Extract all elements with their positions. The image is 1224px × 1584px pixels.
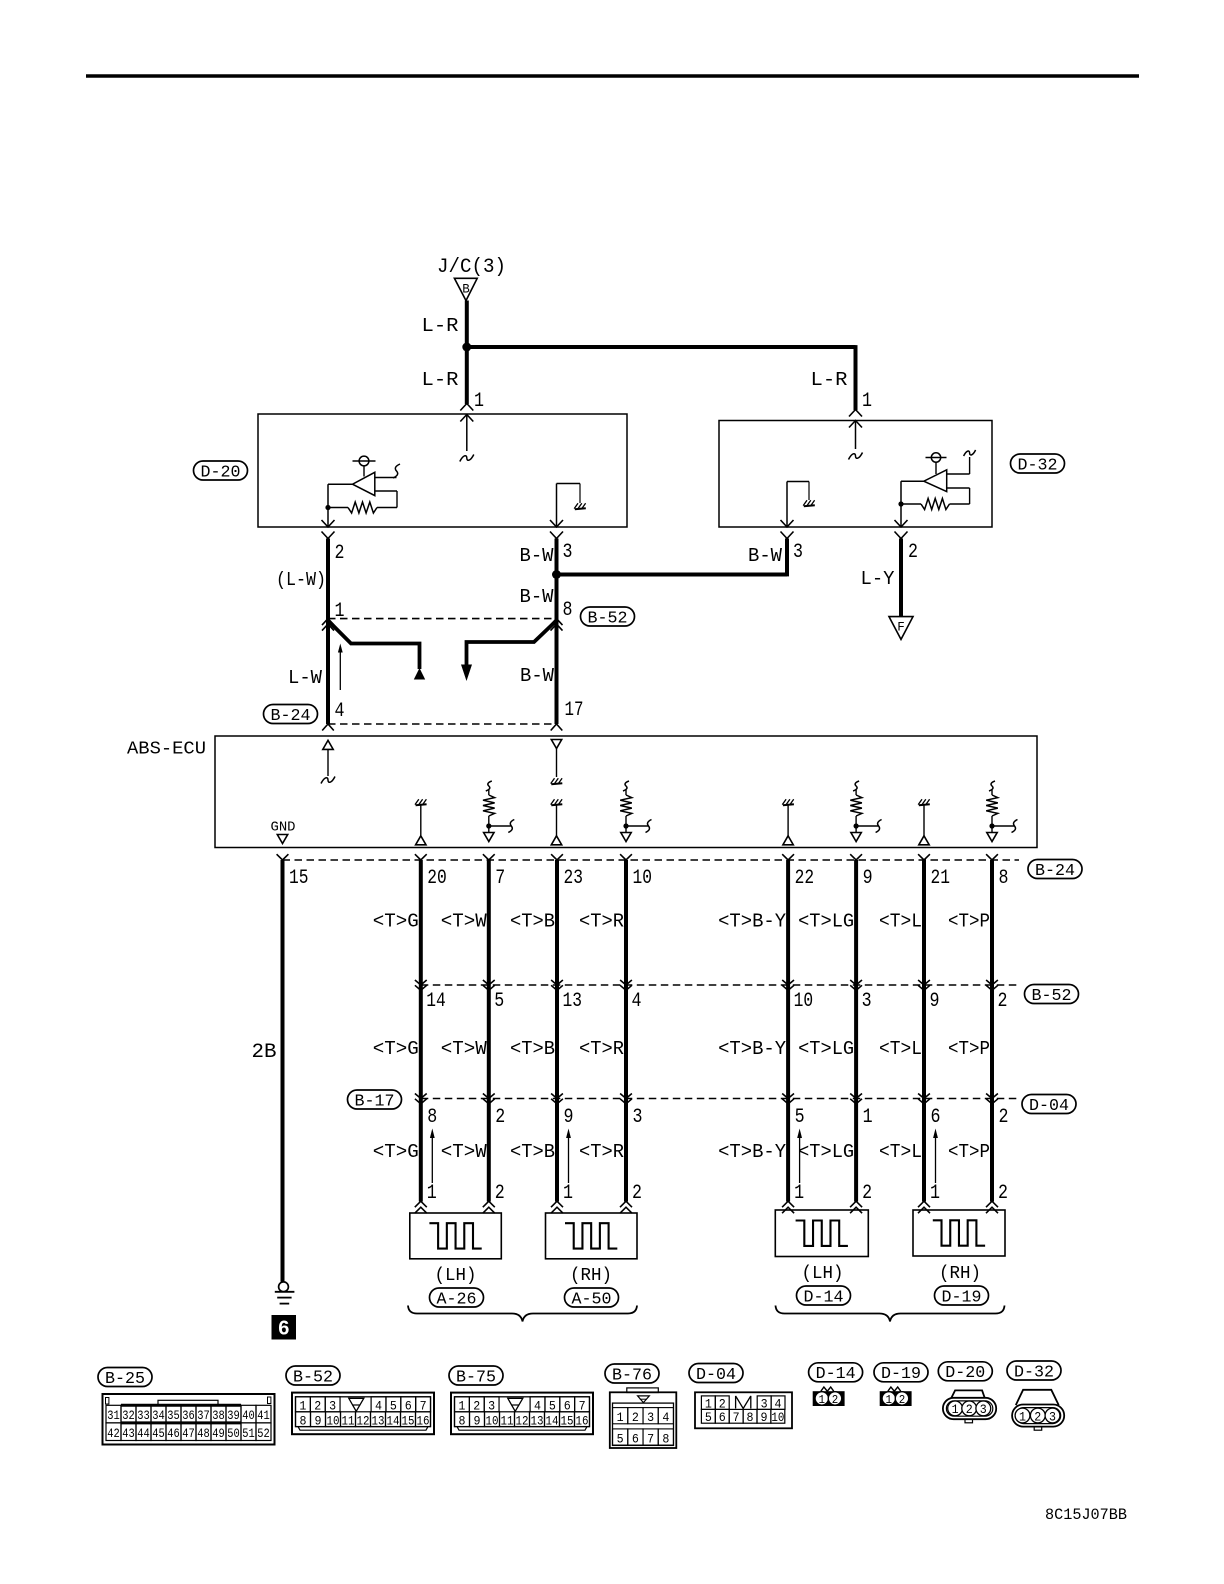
svg-text:D-04: D-04 [696, 1365, 736, 1384]
ECU internal pin 17: triangle to internal ground [551, 740, 561, 749]
svg-text:41: 41 [257, 1408, 270, 1423]
ECU internal pin symbol 10: pull-up resistor [623, 781, 629, 791]
svg-text:50: 50 [227, 1426, 240, 1441]
svg-text:3: 3 [488, 1398, 495, 1413]
svg-text:11: 11 [501, 1413, 514, 1428]
svg-text:B-24: B-24 [1035, 861, 1075, 880]
svg-text:2: 2 [495, 1106, 505, 1129]
B-17/D-04 pin 2 chevrons [483, 1094, 495, 1099]
svg-text:3: 3 [793, 541, 803, 564]
ECU internal pin symbol 8: pull-up resistor [989, 781, 995, 791]
svg-text:6: 6 [278, 1318, 289, 1340]
svg-text:17: 17 [565, 699, 584, 722]
B-52 pin 2 chevrons [986, 980, 998, 985]
D-20 sensor transducer circle [359, 456, 369, 466]
svg-text:4: 4 [375, 1398, 382, 1413]
svg-text:43: 43 [122, 1426, 135, 1441]
J/C(3) triangle terminal B [454, 278, 477, 300]
svg-text:3: 3 [329, 1398, 336, 1413]
svg-text:D-19: D-19 [942, 1287, 982, 1306]
D-32 amp feedback wire [947, 487, 970, 489]
D-20 internal ground branch [556, 484, 558, 528]
svg-text:D-32: D-32 [1018, 455, 1058, 474]
svg-text:5: 5 [549, 1398, 556, 1413]
svg-text:2: 2 [1034, 1410, 1041, 1424]
svg-text:16: 16 [417, 1413, 430, 1428]
connector label D-14 (bottom row) [809, 1363, 863, 1382]
svg-text:<T>LG: <T>LG [798, 911, 854, 933]
thin direction arrow up [339, 650, 341, 690]
svg-text:15: 15 [402, 1413, 415, 1428]
D-32 internal ground branch [786, 482, 788, 528]
svg-text:51: 51 [242, 1426, 255, 1441]
svg-text:B: B [462, 283, 470, 297]
svg-text:10: 10 [633, 867, 653, 890]
svg-text:8: 8 [563, 599, 573, 622]
sensor pin 2 chevrons [986, 1201, 998, 1207]
D-32 pin 3 chevrons [781, 520, 794, 527]
svg-text:B-76: B-76 [612, 1365, 652, 1384]
svg-text:D-20: D-20 [945, 1363, 985, 1382]
connector label A-50 [565, 1288, 619, 1307]
svg-text:23: 23 [564, 867, 584, 890]
wire L-R from J/C(3) to D-20 pin 1 [465, 301, 469, 405]
svg-text:5: 5 [494, 990, 504, 1013]
svg-text:2B: 2B [252, 1041, 277, 1064]
B-24 pin 9 chevron [850, 854, 862, 860]
connector D-19 pin face [888, 1387, 901, 1391]
svg-text:B-52: B-52 [1032, 986, 1072, 1005]
svg-text:5: 5 [617, 1431, 624, 1446]
ABS-ECU box [215, 736, 1037, 848]
svg-text:<T>W: <T>W [441, 1141, 488, 1163]
svg-text:52: 52 [257, 1426, 270, 1441]
svg-text:3: 3 [980, 1403, 987, 1417]
svg-text:2: 2 [314, 1398, 321, 1413]
svg-text:7: 7 [733, 1410, 740, 1425]
B-52 pin 13 chevrons [551, 980, 563, 985]
connector label D-04 (bottom row) [689, 1364, 743, 1383]
wheel speed sensor front RH box A-50 [546, 1213, 638, 1259]
svg-text:10: 10 [794, 990, 814, 1013]
connector B-52 upper dashed line [328, 618, 557, 620]
svg-text:2: 2 [998, 990, 1008, 1013]
svg-text:L-R: L-R [422, 315, 459, 337]
D-32 amplifier triangle [924, 470, 947, 492]
D-20 pin 2 chevrons [322, 520, 335, 527]
svg-text:<T>B-Y: <T>B-Y [718, 1141, 787, 1163]
connector label D-19 [935, 1286, 989, 1305]
svg-text:L-R: L-R [811, 369, 848, 391]
B-17/D-04 pin 2 chevrons [986, 1094, 998, 1099]
svg-text:D-04: D-04 [1029, 1096, 1069, 1115]
wire sensor signal column [624, 860, 628, 1202]
svg-text:B-W: B-W [520, 545, 555, 567]
D-32 internal ground [804, 505, 815, 506]
svg-text:(L-W): (L-W) [276, 569, 326, 591]
ECU internal pin 4: triangle and break [323, 740, 333, 749]
svg-text:15: 15 [289, 867, 309, 890]
D-20 pin 3 chevrons [550, 520, 563, 527]
svg-text:45: 45 [152, 1426, 165, 1441]
wire L-Y from D-32 pin 2 [899, 539, 903, 618]
ECU internal pin symbol 22: pulled to internal rail [783, 804, 794, 805]
D-20 internal ground [575, 508, 586, 509]
svg-text:6: 6 [564, 1398, 571, 1413]
connector D-14 pin face [821, 1387, 834, 1391]
svg-text:4: 4 [534, 1398, 541, 1413]
svg-text:1: 1 [863, 1106, 873, 1129]
svg-text:B-25: B-25 [105, 1369, 145, 1388]
svg-text:B-52: B-52 [293, 1367, 333, 1386]
svg-text:8: 8 [747, 1410, 754, 1425]
svg-text:2: 2 [335, 542, 345, 565]
connector D-32 component box (wheel speed sensor rear right circuit) [719, 421, 992, 528]
svg-text:6: 6 [405, 1398, 412, 1413]
connector label B-76 [605, 1364, 659, 1383]
B-24 pin 10 chevron [620, 854, 632, 860]
svg-text:2: 2 [862, 1182, 872, 1205]
D-32 sensor transducer circle [931, 453, 940, 462]
svg-text:8: 8 [662, 1431, 669, 1446]
arrow head up (incoming signal) [414, 668, 425, 680]
svg-text:<T>L: <T>L [879, 911, 922, 933]
svg-text:<T>LG: <T>LG [798, 1141, 854, 1163]
D-20 internal junction node [325, 505, 330, 510]
svg-text:1: 1 [474, 390, 484, 413]
B-17/D-04 pin 8 chevrons [415, 1094, 427, 1099]
svg-text:1: 1 [952, 1403, 959, 1417]
B-17/D-04 pin 3 chevrons [620, 1094, 632, 1099]
D-32 feedback resistor [921, 499, 950, 510]
connector B-52 pin face [292, 1393, 434, 1435]
svg-text:(LH): (LH) [435, 1266, 477, 1286]
sensor pin 2 chevrons [850, 1201, 862, 1207]
svg-text:15: 15 [561, 1413, 574, 1428]
svg-text:<T>P: <T>P [948, 1038, 990, 1060]
svg-text:B-W: B-W [520, 665, 555, 687]
svg-text:38: 38 [212, 1408, 225, 1423]
svg-text:1: 1 [886, 1393, 893, 1407]
junction node L-R [462, 343, 471, 352]
svg-text:11: 11 [342, 1413, 355, 1428]
thin direction arrow up [431, 1137, 433, 1183]
D-32 amp top input with break [947, 473, 970, 475]
svg-text:<T>R: <T>R [579, 1141, 624, 1163]
svg-text:<T>B: <T>B [510, 1141, 555, 1163]
svg-text:1: 1 [458, 1398, 465, 1413]
connector label A-26 [430, 1288, 484, 1307]
connector label D-32 (bottom row) [1007, 1361, 1061, 1380]
svg-text:12: 12 [516, 1413, 529, 1428]
brace rear sensors [776, 1306, 1005, 1322]
svg-text:46: 46 [167, 1426, 180, 1441]
connector label D-20 [194, 461, 248, 480]
svg-text:1: 1 [819, 1393, 826, 1407]
wire (L-W) from D-20 pin 2 to B-24 pin 4 [326, 539, 330, 725]
svg-text:16: 16 [576, 1413, 589, 1428]
svg-text:L-W: L-W [288, 667, 323, 689]
ECU internal pin 15 triangle [277, 835, 287, 844]
svg-text:(LH): (LH) [802, 1264, 844, 1284]
svg-text:1: 1 [563, 1182, 573, 1205]
svg-text:D-20: D-20 [201, 462, 241, 481]
svg-text:7: 7 [579, 1398, 586, 1413]
wire B-W crossover to D-32 pin 3 [555, 573, 787, 577]
svg-text:4: 4 [632, 990, 642, 1013]
D-20 amp top input with break [375, 477, 397, 479]
svg-text:1: 1 [794, 1182, 804, 1205]
svg-text:8: 8 [427, 1106, 437, 1129]
B-24 pin 22 chevron [782, 854, 794, 860]
D-20 amplifier triangle [353, 472, 375, 495]
svg-text:<T>B-Y: <T>B-Y [718, 1038, 787, 1060]
connector label B-52 [286, 1366, 340, 1385]
D-32 pin 2 chevrons [895, 520, 908, 527]
svg-text:6: 6 [632, 1431, 639, 1446]
svg-text:5: 5 [705, 1410, 712, 1425]
svg-text:14: 14 [546, 1413, 559, 1428]
svg-text:9: 9 [315, 1413, 322, 1428]
sensor pin 1 chevrons [782, 1201, 794, 1207]
ECU internal pin symbol 20: pulled to internal rail [416, 804, 427, 805]
B-52 pin 5 chevrons [483, 980, 495, 985]
ECU internal pin symbol 9: pull-up resistor [853, 781, 859, 791]
brace front sensors [408, 1306, 637, 1322]
B-24 pin 20 chevron [415, 854, 427, 860]
connector D-32 pin face [1016, 1390, 1059, 1405]
svg-text:2: 2 [999, 1106, 1009, 1129]
svg-text:D-14: D-14 [804, 1287, 844, 1306]
svg-text:B-24: B-24 [271, 706, 311, 725]
svg-text:<T>P: <T>P [948, 911, 990, 933]
svg-text:B-W: B-W [748, 545, 783, 567]
svg-text:<T>G: <T>G [373, 1038, 419, 1060]
svg-text:3: 3 [633, 1106, 643, 1129]
wire sensor signal column [922, 860, 926, 1202]
svg-text:33: 33 [137, 1408, 150, 1423]
svg-text:12: 12 [357, 1413, 370, 1428]
wire B-W from D-20 pin 3 [555, 539, 559, 725]
svg-text:<T>B-Y: <T>B-Y [718, 911, 787, 933]
svg-text:1: 1 [862, 390, 872, 413]
connector B-25 pin face [103, 1394, 275, 1445]
svg-text:36: 36 [182, 1408, 195, 1423]
svg-text:<T>L: <T>L [879, 1038, 922, 1060]
connector B-76 pin face [627, 1388, 659, 1393]
thin direction arrow up [568, 1137, 570, 1183]
svg-text:B-75: B-75 [456, 1367, 496, 1386]
wire L-R branch to D-32 pin 1 [465, 345, 856, 349]
wire branch to other circuit (from pin 8) [467, 621, 557, 668]
connector B-75 pin face [451, 1393, 593, 1435]
B-24 pin 23 chevron [551, 854, 563, 860]
svg-text:3: 3 [862, 990, 872, 1013]
svg-text:2: 2 [473, 1398, 480, 1413]
connector label B-24 lower [1028, 860, 1082, 879]
wire sensor signal column [487, 860, 491, 1202]
D-32 internal lead from pin 1 with break [855, 421, 857, 450]
svg-text:2: 2 [899, 1393, 906, 1407]
connector B-17/D-04 dashed line [421, 1098, 1019, 1100]
svg-text:2: 2 [632, 1182, 642, 1205]
ECU internal pin symbol 7: pull-up resistor [486, 781, 492, 791]
wheel speed sensor rear LH box D-14 [775, 1210, 868, 1257]
wire 2B ground wire from ECU pin 15 [281, 860, 285, 1282]
D-32 internal junction node [898, 501, 903, 506]
B-52 pin 1 chevrons [322, 619, 334, 626]
svg-text:10: 10 [486, 1413, 499, 1428]
connector D-04 pin face [695, 1392, 792, 1428]
svg-text:13: 13 [531, 1413, 544, 1428]
svg-text:21: 21 [931, 867, 951, 890]
sensor pin 2 chevrons [483, 1201, 495, 1207]
B-17/D-04 pin 9 chevrons [551, 1094, 563, 1099]
svg-text:44: 44 [137, 1426, 150, 1441]
connector label D-19 (bottom row) [874, 1363, 928, 1382]
svg-text:D-19: D-19 [881, 1364, 921, 1383]
D-32 amp output wire [901, 480, 924, 482]
connector B-24 lower dashed line [283, 859, 1020, 861]
svg-text:3: 3 [647, 1410, 654, 1425]
svg-text:A-50: A-50 [572, 1289, 612, 1308]
B-24 pin 21 chevron [918, 854, 930, 860]
svg-text:(RH): (RH) [570, 1266, 612, 1286]
connector label D-14 [797, 1286, 851, 1305]
svg-text:9: 9 [930, 990, 940, 1013]
svg-text:3: 3 [1049, 1410, 1056, 1424]
sensor pin 1 chevrons [415, 1201, 427, 1207]
svg-text:2: 2 [998, 1182, 1008, 1205]
svg-text:34: 34 [152, 1408, 165, 1423]
B-24 pin 15 chevron [277, 854, 289, 860]
svg-text:37: 37 [197, 1408, 210, 1423]
wire sensor signal column [786, 860, 790, 1202]
wire sensor signal column [990, 860, 994, 1202]
svg-text:8C15J07BB: 8C15J07BB [1045, 1506, 1127, 1524]
thin direction arrow up [799, 1137, 801, 1183]
wire sensor signal column [854, 860, 858, 1202]
svg-text:<T>B: <T>B [510, 1038, 555, 1060]
sensor pin 1 chevrons [551, 1201, 563, 1207]
svg-text:1: 1 [1019, 1410, 1026, 1424]
connector B-24 upper dashed line [328, 723, 557, 725]
D-20 pin 1 connector chevrons [460, 404, 473, 411]
connector label B-75 [449, 1366, 503, 1385]
svg-text:<T>P: <T>P [948, 1141, 990, 1163]
sensor pin 1 chevrons [918, 1201, 930, 1207]
svg-text:5: 5 [795, 1106, 805, 1129]
svg-text:2: 2 [832, 1393, 839, 1407]
svg-text:4: 4 [335, 700, 345, 723]
svg-text:6: 6 [719, 1410, 726, 1425]
svg-text:(RH): (RH) [939, 1264, 981, 1284]
connector label B-52 lower [1025, 985, 1079, 1004]
svg-text:9: 9 [863, 867, 873, 890]
svg-text:<T>G: <T>G [373, 1141, 419, 1163]
svg-text:42: 42 [107, 1426, 120, 1441]
svg-text:D-14: D-14 [816, 1364, 856, 1383]
svg-text:<T>R: <T>R [579, 1038, 624, 1060]
svg-text:13: 13 [563, 990, 583, 1013]
page rule [86, 74, 1139, 78]
B-52 pin 3 chevrons [850, 980, 862, 985]
svg-text:9: 9 [760, 1410, 767, 1425]
svg-text:5: 5 [390, 1398, 397, 1413]
B-52 pin 4 chevrons [620, 980, 632, 985]
svg-text:<T>W: <T>W [441, 1038, 488, 1060]
svg-text:A-26: A-26 [437, 1289, 477, 1308]
connector label B-24 upper [264, 705, 318, 724]
connector label D-04 [1022, 1095, 1076, 1114]
svg-text:7: 7 [420, 1398, 427, 1413]
B-24 pin 4 chevron [322, 724, 334, 731]
svg-text:14: 14 [387, 1413, 400, 1428]
D-20 internal lead from pin 1 with break [466, 414, 468, 451]
wheel speed sensor rear RH box D-19 [913, 1210, 1005, 1256]
svg-text:14: 14 [426, 990, 446, 1013]
svg-text:10: 10 [327, 1413, 340, 1428]
wire sensor signal column [555, 860, 559, 1202]
svg-text:B-52: B-52 [588, 608, 628, 627]
svg-text:10: 10 [771, 1410, 784, 1425]
svg-text:13: 13 [372, 1413, 385, 1428]
svg-text:2: 2 [495, 1182, 505, 1205]
svg-text:D-32: D-32 [1014, 1362, 1054, 1381]
B-52 pin 9 chevrons [918, 980, 930, 985]
D-20 amp feedback wire [375, 490, 397, 492]
svg-text:9: 9 [474, 1413, 481, 1428]
B-17/D-04 pin 1 chevrons [850, 1094, 862, 1099]
svg-text:9: 9 [564, 1106, 574, 1129]
svg-text:39: 39 [227, 1408, 240, 1423]
svg-text:22: 22 [795, 867, 815, 890]
wire branch to other circuit (from pin 1) [328, 621, 420, 670]
connector label B-25 [98, 1368, 152, 1387]
svg-text:8: 8 [459, 1413, 466, 1428]
B-24 pin 7 chevron [483, 854, 495, 860]
svg-text:49: 49 [212, 1426, 225, 1441]
wire sensor signal column [419, 860, 423, 1202]
svg-text:GND: GND [271, 820, 296, 836]
svg-text:<T>G: <T>G [373, 911, 419, 933]
svg-text:ABS-ECU: ABS-ECU [127, 740, 206, 760]
B-52 pin 8 chevrons [551, 619, 563, 626]
svg-text:<T>LG: <T>LG [798, 1038, 854, 1060]
D-20 feedback resistor [348, 502, 377, 513]
svg-text:2: 2 [966, 1403, 973, 1417]
svg-text:<T>L: <T>L [879, 1141, 922, 1163]
svg-text:1: 1 [930, 1182, 940, 1205]
svg-text:B-17: B-17 [355, 1091, 395, 1110]
B-17/D-04 pin 5 chevrons [782, 1094, 794, 1099]
B-24 pin 17 chevron [551, 724, 563, 731]
svg-text:J/C(3): J/C(3) [437, 256, 506, 279]
thin direction arrow up [935, 1137, 937, 1183]
svg-text:20: 20 [427, 867, 447, 890]
svg-text:7: 7 [647, 1431, 654, 1446]
svg-text:2: 2 [632, 1410, 639, 1425]
svg-text:35: 35 [167, 1408, 180, 1423]
B-52 pin 10 chevrons [782, 980, 794, 985]
svg-text:2: 2 [908, 541, 918, 564]
svg-text:6: 6 [931, 1106, 941, 1129]
arrow head down (outgoing signal) [461, 665, 472, 682]
ECU internal pin symbol 21: pulled to internal rail [919, 804, 930, 805]
svg-text:4: 4 [662, 1410, 669, 1425]
connector label B-52 upper [581, 607, 635, 626]
connector D-20 component box (wheel speed sensor front left circuit) [258, 414, 627, 527]
